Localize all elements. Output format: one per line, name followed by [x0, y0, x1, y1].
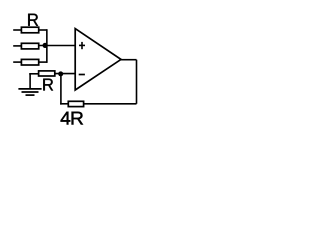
resistor R1 body [21, 27, 38, 33]
resistor R3 body [21, 59, 38, 65]
wire R4 to node B and op-amp - input [55, 73, 75, 75]
node B junction dot [58, 71, 63, 76]
op-amp - input marker [79, 74, 85, 76]
wire R1 right to bus [39, 29, 47, 31]
label R (top) [28, 14, 38, 26]
input stub wire 3 [13, 61, 21, 63]
wire R2 right to node A and op-amp + input [39, 45, 75, 47]
wire bus vertical [46, 29, 48, 63]
resistor R4 body (ground leg) [39, 71, 55, 76]
wire node B down to feedback [60, 74, 62, 105]
resistor R5 body (feedback 4R) [68, 101, 83, 106]
label 4R [61, 112, 71, 125]
op-amp + input marker [79, 42, 85, 49]
ground [18, 74, 41, 95]
node A junction dot [43, 43, 48, 48]
wire R3 right to bus [39, 61, 47, 63]
input stub wire 1 [13, 29, 21, 31]
wire feedback bottom right [84, 103, 137, 105]
input stub wire 2 [13, 45, 21, 47]
label R (ground leg) [43, 79, 53, 91]
op-amp U1 triangle [75, 29, 121, 90]
resistor R2 body [21, 43, 38, 49]
wire ground to resistor R4 [29, 73, 38, 75]
wire feedback bottom left [60, 103, 68, 105]
wire op-amp output [121, 59, 137, 61]
wire feedback right vertical [136, 60, 138, 104]
